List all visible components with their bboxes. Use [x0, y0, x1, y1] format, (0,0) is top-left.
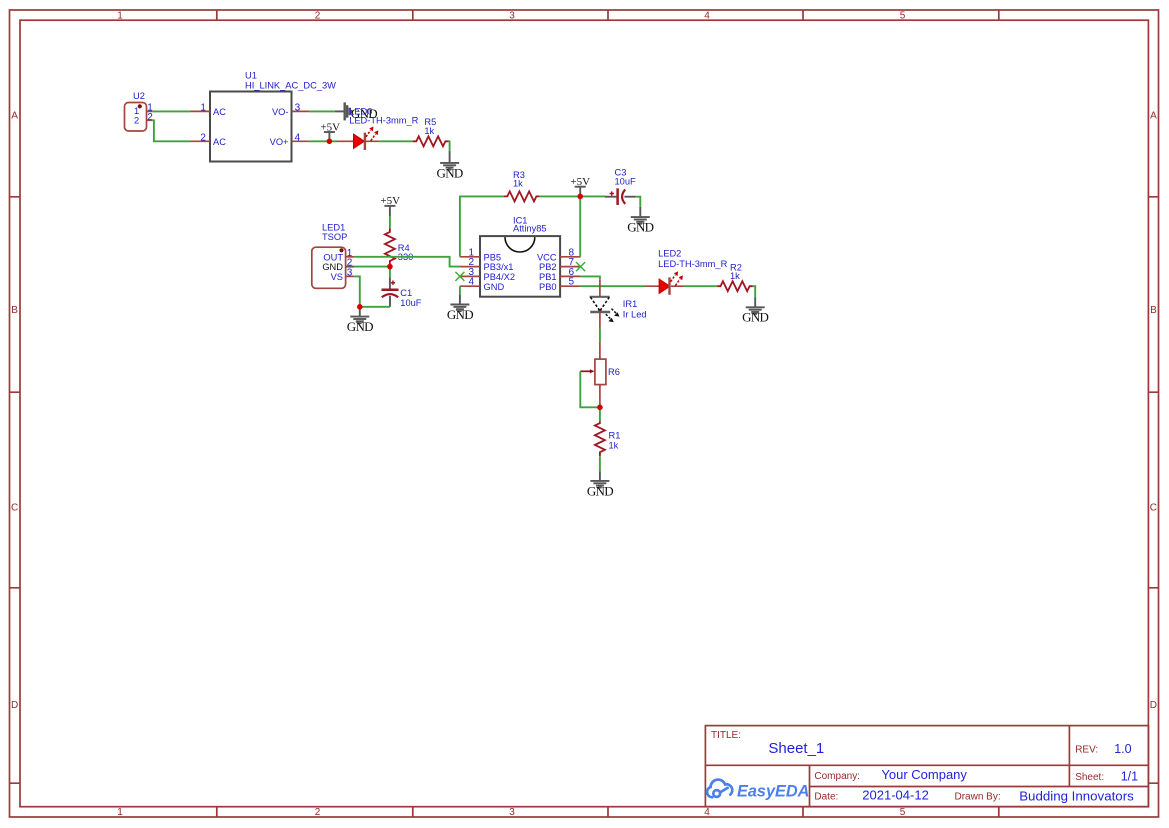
wire U2.2 to U1.2	[152, 120, 190, 141]
svg-text:4: 4	[295, 132, 301, 143]
svg-text:Drawn By:: Drawn By:	[955, 792, 1001, 803]
IC1 pin 6 PB1	[539, 267, 581, 282]
svg-text:LED-TH-3mm_R: LED-TH-3mm_R	[658, 259, 727, 269]
wire PB1 to IR1	[581, 276, 600, 279]
svg-text:B: B	[11, 305, 18, 316]
svg-text:VO-: VO-	[272, 107, 289, 117]
wire +5V to R4	[389, 216, 391, 228]
wire U1.3 to GND flag	[310, 110, 335, 112]
wire junction to C3	[580, 195, 605, 197]
svg-text:U2: U2	[133, 91, 145, 101]
svg-text:1k: 1k	[424, 126, 434, 136]
svg-text:Date:: Date:	[814, 792, 838, 803]
wire junction to R1	[599, 407, 601, 421]
wire LED0 to R5	[380, 140, 413, 142]
svg-text:2: 2	[315, 11, 321, 22]
resistor R2	[717, 262, 753, 291]
svg-text:5: 5	[569, 277, 575, 288]
svg-text:3: 3	[295, 102, 301, 113]
resistor R3	[504, 170, 540, 202]
svg-text:Budding Innovators: Budding Innovators	[1019, 788, 1134, 803]
wire U1.4 to +5V junction	[310, 140, 337, 142]
junction R4/C1/GND net	[387, 264, 393, 270]
wire R1 to ground	[599, 456, 601, 471]
wire PB0 to LED2	[581, 285, 645, 287]
wire GND pin to R4 junction	[354, 266, 390, 268]
svg-text:Your Company: Your Company	[881, 767, 967, 782]
svg-text:EasyEDA: EasyEDA	[737, 782, 809, 800]
ground symbol GND3	[447, 295, 473, 322]
svg-text:Company:: Company:	[814, 771, 860, 782]
svg-text:1/1: 1/1	[1121, 769, 1138, 783]
IC1 pin 5 PB0	[539, 277, 581, 292]
svg-text:VCC: VCC	[537, 252, 557, 262]
svg-text:B: B	[1150, 305, 1157, 316]
ground symbol GND6	[742, 297, 768, 325]
svg-text:3: 3	[509, 807, 515, 818]
ground symbol GND5	[587, 471, 613, 498]
svg-text:3: 3	[347, 267, 353, 278]
svg-text:OUT: OUT	[323, 252, 343, 262]
wire R3 to +5V junction	[540, 195, 581, 197]
svg-text:1: 1	[117, 11, 123, 22]
U1 pin 4 VO+	[270, 132, 310, 147]
svg-text:LED2: LED2	[658, 248, 681, 258]
no-connect flag pin 3	[455, 272, 464, 281]
svg-text:10uF: 10uF	[400, 298, 422, 308]
svg-text:AC: AC	[213, 137, 226, 147]
junction VS/C1/GND	[357, 304, 363, 310]
ground symbol GND4	[627, 207, 653, 235]
frame top ticks	[217, 10, 999, 20]
junction VCC/R3/C3	[577, 194, 583, 200]
U1 pin 2 AC	[190, 132, 226, 147]
svg-text:1: 1	[117, 807, 123, 818]
junction R6/R1	[597, 405, 603, 411]
wire VCC up to +5V junction	[579, 196, 581, 256]
frame left ticks	[10, 197, 21, 783]
EasyEDA logo cloud	[707, 780, 732, 798]
+5V power flag at VCC	[570, 176, 590, 197]
svg-text:D: D	[1150, 700, 1157, 711]
svg-text:1k: 1k	[730, 271, 740, 281]
power module U1	[210, 71, 336, 162]
ir emitter IR1	[590, 279, 647, 328]
svg-text:C: C	[11, 503, 18, 514]
U2 pin 2	[147, 112, 154, 123]
svg-text:A: A	[1150, 111, 1157, 122]
svg-text:Ir Led: Ir Led	[623, 310, 647, 320]
svg-text:GND: GND	[627, 220, 653, 235]
IC1 pin 3 PB4	[460, 267, 515, 282]
svg-text:2: 2	[200, 132, 206, 143]
resistor R1	[595, 421, 620, 456]
connector U2	[125, 91, 147, 131]
svg-text:3: 3	[509, 11, 515, 22]
wire VS down to ground junction	[354, 276, 360, 306]
wire U2.1 to U1.1	[152, 110, 190, 112]
LED2 diode	[645, 248, 728, 295]
wire OUT to IC1 PB3	[354, 257, 460, 267]
svg-text:PB5: PB5	[484, 252, 502, 262]
svg-text:GND: GND	[347, 319, 373, 334]
svg-text:Sheet:: Sheet:	[1075, 772, 1104, 783]
svg-text:GND: GND	[437, 165, 463, 180]
IC1 pin 8 VCC	[537, 247, 581, 262]
svg-text:2021-04-12: 2021-04-12	[862, 788, 929, 803]
wire junction down to C1	[389, 267, 391, 278]
svg-text:2: 2	[315, 807, 321, 818]
wire C3 to ground	[636, 197, 641, 207]
svg-text:REV:: REV:	[1075, 745, 1098, 756]
svg-text:C1: C1	[400, 288, 412, 298]
frame right ticks	[1148, 197, 1158, 783]
svg-text:5: 5	[900, 807, 906, 818]
+5V power flag above R4	[380, 195, 400, 216]
resistor R4	[385, 228, 413, 267]
U2 pin 1	[147, 103, 154, 114]
svg-text:4: 4	[704, 807, 710, 818]
IC1 pin 7 PB2	[539, 257, 581, 272]
frame column numbers top	[117, 11, 906, 22]
LED0 diode	[337, 127, 380, 151]
IC1 pin 2 PB3	[460, 257, 514, 272]
svg-text:10uF: 10uF	[615, 177, 637, 187]
frame row letters left	[11, 111, 18, 712]
svg-text:Sheet_1: Sheet_1	[768, 740, 824, 757]
wire IC1 GND to ground	[459, 286, 461, 294]
wire R5 to ground	[448, 141, 451, 151]
IR receiver LED1	[312, 223, 348, 289]
svg-text:5: 5	[900, 11, 906, 22]
wire R6 wiper to bottom junction	[580, 371, 600, 407]
svg-text:1k: 1k	[513, 178, 523, 188]
svg-text:GND: GND	[587, 483, 613, 498]
frame row letters right	[1150, 111, 1157, 712]
svg-text:PB2: PB2	[539, 262, 557, 272]
wire ground junction to C1 bottom	[360, 306, 390, 308]
svg-text:GND: GND	[447, 307, 473, 322]
svg-text:U1: U1	[245, 71, 257, 81]
svg-text:VO+: VO+	[270, 137, 289, 147]
svg-text:TITLE:: TITLE:	[711, 730, 741, 741]
U1 pin 1 AC	[190, 102, 226, 117]
LED1 pin 1 OUT	[323, 248, 354, 262]
IC1 pin 4 GND	[460, 277, 505, 292]
svg-text:LED-TH-3mm_R: LED-TH-3mm_R	[349, 115, 418, 125]
svg-text:HI_LINK_AC_DC_3W: HI_LINK_AC_DC_3W	[245, 80, 336, 90]
svg-text:TSOP: TSOP	[322, 232, 347, 242]
wire IR1 to R6	[599, 329, 601, 342]
capacitor C3	[605, 167, 636, 205]
svg-text:PB4/X2: PB4/X2	[484, 272, 516, 282]
resistor R5	[413, 117, 449, 147]
svg-text:PB1: PB1	[539, 272, 557, 282]
svg-text:1k: 1k	[609, 441, 619, 451]
svg-text:VS: VS	[331, 272, 343, 282]
svg-text:1: 1	[200, 102, 206, 113]
svg-text:C: C	[1150, 503, 1157, 514]
svg-text:GND: GND	[322, 262, 343, 272]
wire R2 to ground	[753, 286, 755, 297]
LED1 pin 2 GND	[322, 258, 354, 273]
svg-text:D: D	[11, 700, 18, 711]
svg-text:PB3/x1: PB3/x1	[484, 262, 514, 272]
svg-text:Attiny85: Attiny85	[513, 224, 547, 234]
svg-text:GND: GND	[742, 310, 768, 325]
frame column numbers bottom	[117, 807, 906, 818]
wire LED2 to R2	[685, 285, 718, 287]
frame bottom ticks	[217, 807, 999, 817]
ground flag sideways on VO-	[335, 102, 352, 120]
svg-text:R1: R1	[609, 431, 621, 441]
trimmer R6	[580, 342, 620, 407]
+5V power flag	[320, 121, 340, 141]
svg-text:A: A	[11, 111, 18, 122]
svg-text:4: 4	[468, 277, 474, 288]
no-connect flag pin 7	[576, 262, 585, 271]
capacitor C1	[382, 277, 422, 308]
svg-text:1.0: 1.0	[1114, 742, 1131, 756]
ground symbol GND1	[437, 151, 463, 180]
svg-text:AC: AC	[213, 107, 226, 117]
svg-text:IR1: IR1	[623, 299, 637, 309]
IC1 pin 1 PB5	[460, 247, 501, 262]
svg-text:R6: R6	[608, 367, 620, 377]
wire PB5 up to R3	[460, 196, 504, 256]
junction on VO+ net	[327, 139, 333, 145]
svg-text:4: 4	[704, 11, 710, 22]
LED1 pin 3 VS	[331, 267, 355, 282]
svg-text:2: 2	[134, 116, 139, 126]
svg-text:GND: GND	[484, 282, 505, 292]
svg-text:PB0: PB0	[539, 282, 557, 292]
microcontroller IC1	[480, 215, 560, 296]
U1 pin 3 VO-	[272, 102, 310, 117]
ground symbol GND2	[347, 307, 373, 334]
title block grid	[705, 726, 1148, 807]
